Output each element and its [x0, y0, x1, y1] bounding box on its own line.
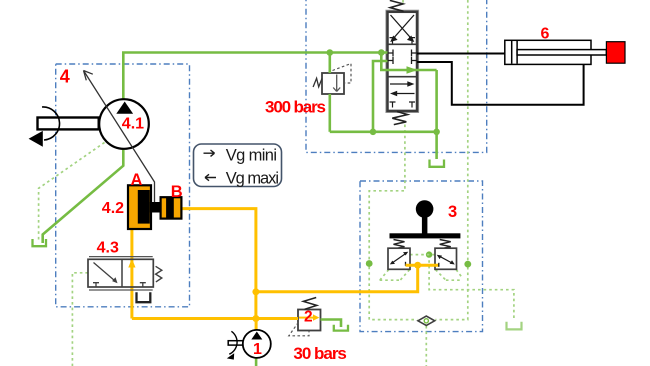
main directional valve body	[386, 10, 419, 112]
wire pump 1 outlet	[255, 319, 258, 332]
junction dot joystick drain	[426, 251, 432, 257]
flow arrow up in valve 4.3	[128, 259, 135, 268]
variable displacement arrow of pump 4	[84, 71, 155, 203]
wire main valve T port to return	[373, 61, 388, 132]
right reducing valve arrow	[439, 256, 453, 264]
main valve top spring	[390, 0, 404, 11]
pilot line from main valve bottom to left joystick valve	[369, 125, 405, 261]
relief valve 2 pilot dashes	[289, 323, 309, 336]
pilot line to valve 4.3	[72, 273, 88, 366]
wire pump 4.1 outlet to main valve P	[123, 53, 387, 100]
svg-text:A: A	[131, 171, 143, 189]
valve 4.3 bottom rail	[89, 289, 153, 291]
servo cylinder 4.2 chamber A	[128, 185, 151, 229]
flow direction arrow in main valve	[407, 66, 418, 73]
wire return line under relief valve	[330, 131, 437, 134]
main valve bottom cell parallel arrows	[390, 83, 411, 85]
wire junction to joystick supply	[256, 265, 418, 292]
svg-text:4: 4	[60, 67, 70, 87]
pump 4.1 body	[99, 99, 149, 149]
relief valve 2 body	[298, 310, 321, 331]
legend arrow Vg maxi	[205, 174, 216, 180]
right reducing valve body	[435, 248, 457, 269]
wire servo 4.2 port B to junction	[181, 209, 256, 319]
wire main valve A port to cylinder 6	[417, 53, 505, 55]
pilot drain link between joystick valves	[410, 254, 435, 256]
pilot line from left joystick valve junction to shuttle valve	[369, 267, 417, 320]
svg-text:4.2: 4.2	[102, 200, 124, 217]
svg-text:30 bars: 30 bars	[293, 344, 347, 363]
relief valve 2 spring	[303, 298, 317, 310]
legend arrow Vg mini	[204, 150, 215, 156]
pump 1 shaft	[228, 341, 243, 345]
wire pump 1 pressure line	[132, 317, 298, 320]
junction dot left joystick valve pilot	[366, 260, 373, 267]
joystick right spring	[440, 240, 451, 249]
wire relief valve 2 outlet to tank T3	[321, 320, 342, 328]
svg-text:4.3: 4.3	[97, 240, 119, 257]
wire P branch through main valve	[381, 53, 436, 71]
right reducing valve port tick	[438, 263, 440, 267]
valve 4.3 left cell arrow	[94, 263, 115, 281]
pump 1 rotation arc	[229, 331, 237, 354]
junction dot joystick supply	[414, 262, 421, 269]
left reducing valve arrow	[392, 253, 407, 263]
servo cylinder 4.2 chamber B	[161, 197, 182, 218]
wire branch to relief valve 300 bars	[328, 53, 331, 74]
wire pump 1 suction	[255, 358, 258, 366]
main valve bottom spring	[392, 112, 407, 125]
tank T2 (under main valve)	[430, 160, 445, 167]
pump 4.1 flow triangle	[116, 102, 133, 114]
tank T1 (pump 4.1 suction)	[33, 239, 47, 246]
servo piston 4.2	[138, 190, 150, 224]
pilot drain line from pump 4.1 case to tank	[39, 143, 105, 241]
dashed enclosure box 3 (joystick pilot group)	[360, 181, 483, 332]
pump 1 rotation arrowhead	[227, 353, 234, 359]
cylinder 6 rod	[517, 50, 606, 55]
relief valve 300 bars arrow	[333, 75, 340, 92]
main valve middle cell blocked ports	[388, 50, 418, 65]
wire return to tank T2	[435, 70, 438, 159]
tank T5 (light green, joystick drain)	[507, 322, 522, 330]
valve 4.3 drain tank	[137, 292, 151, 302]
svg-text:300 bars: 300 bars	[265, 98, 326, 117]
servo piston B 4.2	[166, 197, 174, 218]
svg-text:4.1: 4.1	[122, 116, 144, 133]
pump 1 body	[243, 330, 271, 358]
junction dot orange upper	[252, 288, 259, 295]
svg-text:Vg maxi: Vg maxi	[226, 170, 279, 188]
pump 1 flow triangle	[251, 332, 262, 340]
junction dot P line / valve branch	[378, 49, 385, 56]
dashed enclosure box 4 (pump group)	[56, 64, 190, 307]
wire pump 4.1 suction to tank T1	[43, 149, 124, 244]
main valve top cell port ticks	[390, 38, 416, 44]
cylinder 6 barrel	[505, 40, 591, 64]
servo rod 4.2	[150, 202, 174, 213]
pilot line from image top to right joystick valve	[467, 0, 469, 261]
junction dot right joystick valve pilot	[464, 261, 471, 268]
main valve bottom cell port ticks	[390, 102, 416, 108]
svg-text:3: 3	[448, 203, 457, 221]
pilot line from shuttle valve to image bottom	[425, 326, 427, 366]
drain cone under right joystick valve	[436, 270, 462, 281]
drain cone under left joystick valve	[380, 270, 410, 281]
junction dot return line right	[433, 129, 440, 136]
relief valve 300 bars pilot dashes	[333, 64, 352, 84]
cylinder 6 load block	[606, 42, 625, 64]
pump 4.1 rotation arrowhead	[29, 131, 43, 147]
valve 4.3 top rail	[89, 256, 153, 258]
junction dot return line left	[370, 129, 377, 136]
pilot line from right joystick valve junction to shuttle valve	[435, 267, 468, 320]
valve 4.3 blocked port tick left	[93, 283, 99, 287]
joystick left spring	[394, 240, 405, 249]
tank T3 (relief valve 2 outlet)	[334, 325, 348, 331]
valve 4.3 body	[88, 259, 153, 287]
pump 4.1 rotation arc	[42, 107, 60, 140]
relief valve 300 bars body	[322, 73, 344, 94]
svg-text:1: 1	[253, 341, 262, 358]
main valve top cell crossed arrows	[391, 15, 415, 41]
valve 4.3 blocked port tick right	[140, 283, 146, 287]
joystick 3 ball	[416, 200, 434, 218]
wire main valve B port to cylinder 6 rod side	[417, 62, 584, 105]
pump 4.1 drive shaft	[38, 118, 99, 130]
joystick 3 bar	[390, 233, 461, 238]
wire servo 4.2 port A through valve 4.3	[130, 229, 133, 319]
flow arrow in relief valve 2	[299, 317, 313, 319]
shuttle valve	[418, 316, 435, 325]
svg-text:6: 6	[541, 26, 550, 43]
left reducing valve body	[388, 248, 410, 269]
pilot drain line between joystick valves to tank	[429, 255, 514, 321]
svg-text:2: 2	[304, 308, 313, 325]
valve 4.3 spring	[156, 266, 162, 282]
wire between joystick reducing valves	[406, 264, 439, 267]
junction dot orange lower	[252, 315, 259, 322]
cylinder 6 piston	[511, 41, 513, 64]
svg-text:B: B	[171, 183, 183, 201]
joystick 3 stem	[422, 215, 428, 234]
wire relief valve 300 bars outlet down	[328, 94, 331, 132]
relief valve 300 bars spring	[313, 78, 322, 87]
legend box	[194, 144, 282, 187]
dashed enclosure box (main valve group, top right)	[306, 0, 487, 152]
svg-text:Vg mini: Vg mini	[226, 146, 277, 164]
junction dot P line / relief branch	[327, 49, 334, 56]
left reducing valve port tick	[405, 262, 407, 266]
pilot line at top of main valve	[402, 0, 404, 4]
